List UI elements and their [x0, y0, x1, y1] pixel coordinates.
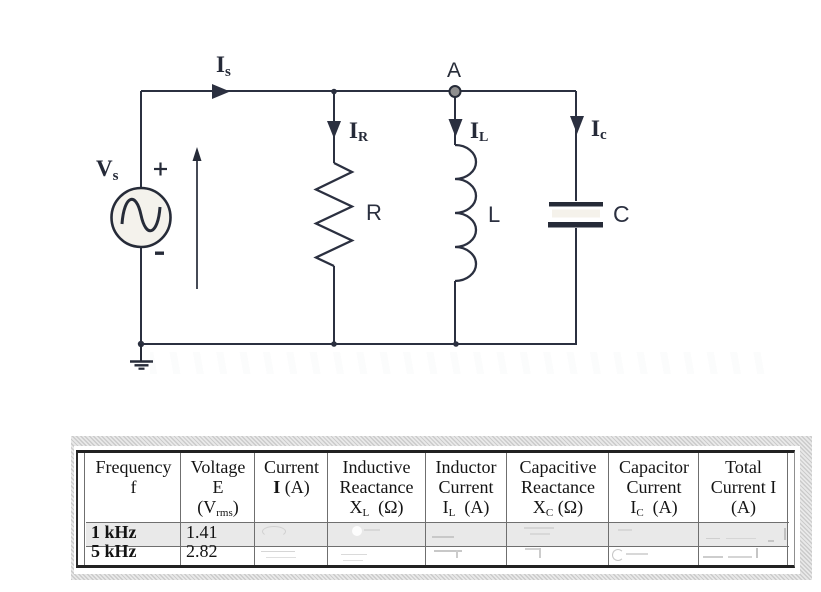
arrow Is on top wire: [212, 84, 230, 99]
data table: [76, 450, 795, 568]
arrow IR: [327, 121, 341, 139]
svg-text:A: A: [447, 59, 461, 82]
svg-text:C: C: [613, 201, 630, 227]
junction dot inductor bottom: [453, 341, 459, 347]
junction dot at resistor top: [331, 89, 337, 95]
wire top horizontal: [141, 90, 576, 92]
svg-text:Ic: Ic: [591, 116, 607, 143]
wire left vertical lower: [140, 247, 142, 344]
polarity plus: [154, 163, 167, 176]
wire inductor branch upper: [454, 96, 456, 145]
wire capacitor branch lower: [575, 228, 577, 344]
inductor L: [455, 145, 476, 281]
wire resistor branch upper: [333, 91, 335, 163]
ground: [130, 344, 153, 369]
node A: [450, 86, 461, 97]
svg-text:IL: IL: [470, 118, 488, 145]
wire left vertical upper: [140, 91, 142, 188]
svg-text:R: R: [366, 200, 382, 225]
wire inductor branch lower: [454, 281, 456, 344]
svg-text:Vs: Vs: [96, 156, 119, 184]
junction dot resistor bottom: [331, 341, 337, 347]
resistor R: [316, 163, 352, 266]
gray hatched band behind table: [71, 436, 812, 580]
arrow IL: [449, 119, 463, 137]
wire bottom horizontal: [138, 343, 577, 345]
voltage source Vs: [112, 188, 171, 247]
capacitor C: [548, 202, 603, 228]
faint scan speckle strip below circuit: [150, 352, 770, 374]
wire resistor branch lower: [333, 266, 335, 344]
wire capacitor branch upper: [575, 91, 577, 201]
polarity minus: [155, 252, 164, 255]
junction dot ground: [138, 341, 144, 347]
svg-text:IR: IR: [349, 118, 369, 145]
current direction arrow (upward): [193, 147, 202, 289]
arrow Ic: [570, 116, 584, 134]
svg-text:L: L: [488, 202, 500, 227]
svg-text:Is: Is: [216, 52, 231, 80]
